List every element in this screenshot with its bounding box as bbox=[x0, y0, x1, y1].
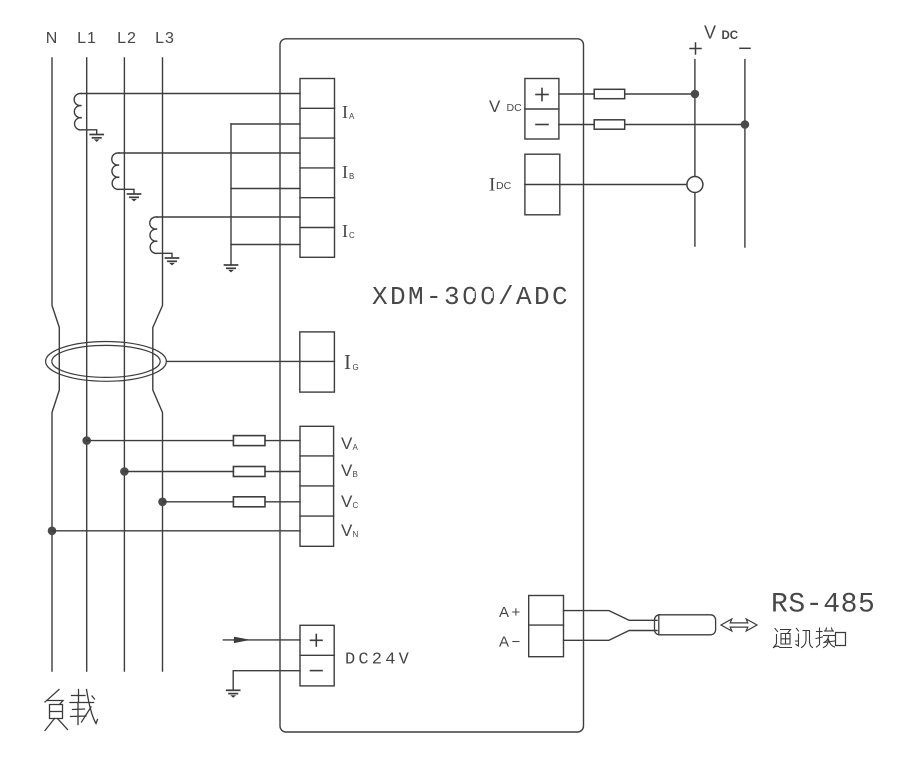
svg-text:I: I bbox=[489, 175, 495, 196]
terminal block IDC input bbox=[525, 154, 560, 215]
label VA bbox=[341, 434, 359, 453]
wire DC24V minus to ground bbox=[233, 671, 300, 690]
meter enclosure XDM-300/ADC bbox=[280, 39, 584, 732]
label IG bbox=[344, 350, 359, 374]
resistor VB bbox=[233, 467, 265, 477]
wire ring to IG terminal bbox=[166, 360, 334, 362]
resistor VDC plus bbox=[594, 89, 625, 98]
label XDM-300/ADC bbox=[372, 282, 570, 312]
terminal block DC24V supply bbox=[300, 625, 334, 686]
svg-text:I: I bbox=[342, 102, 348, 122]
label minus above return line bbox=[740, 47, 750, 49]
double arrow to RS-485 bbox=[721, 619, 757, 631]
ground CT1 bbox=[90, 135, 103, 142]
wire DC24V plus input bbox=[223, 639, 300, 641]
label VDC left bbox=[489, 97, 522, 116]
terminal block IG bbox=[300, 332, 335, 392]
resistor VDC minus bbox=[594, 120, 625, 129]
resistor VA bbox=[233, 436, 265, 446]
label VC bbox=[341, 492, 359, 511]
wire IDC to clamp sensor bbox=[525, 184, 687, 186]
svg-text:V: V bbox=[341, 492, 353, 511]
label VN bbox=[341, 521, 359, 540]
svg-text:C: C bbox=[349, 231, 355, 240]
label IB bbox=[342, 162, 354, 182]
svg-text:DC: DC bbox=[722, 30, 739, 42]
svg-text:I: I bbox=[344, 350, 351, 374]
wire return stub to terminal square 4 bbox=[231, 188, 300, 190]
label plus in VDC block bbox=[536, 89, 548, 101]
wire L3 feeder bbox=[153, 58, 163, 671]
wire CT3 secondary top to terminal IC bbox=[157, 216, 300, 218]
svg-text:A: A bbox=[349, 112, 355, 121]
wire CT3 secondary bottom to ground bbox=[158, 253, 173, 257]
ground common CT return bbox=[225, 265, 238, 272]
ground DC24V bbox=[227, 690, 240, 697]
current transformer CT1 on L1 bbox=[74, 93, 82, 130]
wire VDC minus return vertical bbox=[744, 60, 746, 247]
label 负载 (load) drawn glyph 载 bbox=[70, 690, 98, 725]
svg-text:G: G bbox=[353, 363, 359, 372]
terminal block voltage inputs VA VB VC VN bbox=[300, 426, 334, 546]
svg-text:V: V bbox=[341, 461, 353, 480]
svg-text:A+: A+ bbox=[499, 604, 523, 621]
wire CT1 secondary bottom to ground bbox=[82, 130, 97, 134]
svg-text:B: B bbox=[353, 470, 358, 479]
svg-text:DC24V: DC24V bbox=[345, 651, 412, 670]
current transformer CT3 on L3 bbox=[150, 217, 158, 254]
wire VDC plus supply vertical bbox=[694, 60, 696, 246]
wire A+ to communication plug bbox=[564, 611, 658, 621]
label plus in DC24V block bbox=[311, 635, 323, 647]
zero sequence CT ring inner bbox=[52, 345, 160, 377]
label 通讯接口 drawn glyph 讯 bbox=[796, 629, 813, 648]
zero sequence CT ring outer bbox=[46, 342, 167, 382]
svg-text:DC: DC bbox=[496, 180, 512, 192]
svg-text:DC: DC bbox=[507, 102, 523, 114]
label minus in DC24V block bbox=[311, 670, 323, 672]
ground CT2 bbox=[128, 194, 141, 201]
wire common CT return line bbox=[230, 124, 232, 265]
svg-text:L1: L1 bbox=[77, 30, 97, 47]
label 通讯接口 drawn glyph 接 bbox=[816, 628, 835, 648]
communication plug body bbox=[655, 615, 716, 635]
junction dot VDC minus bbox=[741, 120, 750, 129]
wire N feeder bbox=[52, 58, 59, 671]
ground CT3 bbox=[166, 258, 179, 265]
wire return stub to terminal square 2 bbox=[231, 123, 300, 125]
terminal block RS485 A+ A- bbox=[529, 596, 564, 657]
svg-text:N: N bbox=[353, 530, 359, 539]
svg-text:I: I bbox=[342, 221, 348, 241]
svg-text:C: C bbox=[353, 501, 359, 510]
svg-text:V: V bbox=[704, 23, 716, 43]
junction dot VB tap on L2 bbox=[120, 467, 129, 476]
junction dot VA tap on L1 bbox=[82, 436, 91, 445]
wire VB tap to resistor bbox=[124, 471, 300, 473]
svg-text:L3: L3 bbox=[155, 30, 175, 47]
svg-text:V: V bbox=[341, 521, 353, 540]
svg-text:RS-485: RS-485 bbox=[771, 590, 875, 621]
svg-text:V: V bbox=[489, 97, 501, 116]
terminal block VDC aux supply bbox=[525, 79, 559, 140]
wire L2 feeder bbox=[123, 58, 125, 671]
wire VA tap to resistor bbox=[87, 440, 300, 442]
wire VN tap to terminal bbox=[52, 530, 300, 532]
svg-text:I: I bbox=[342, 162, 348, 182]
label 通讯接口 drawn glyph 口 bbox=[836, 633, 846, 646]
label minus in VDC block bbox=[536, 124, 548, 126]
wire VDC plus to terminal bbox=[559, 93, 695, 95]
label VB bbox=[341, 461, 358, 480]
svg-text:L2: L2 bbox=[117, 30, 137, 47]
svg-text:B: B bbox=[349, 172, 354, 181]
junction dot VDC plus bbox=[691, 90, 700, 99]
label plus above supply line bbox=[690, 43, 701, 54]
wire VDC minus to terminal bbox=[559, 124, 745, 126]
label VDC top bbox=[704, 23, 738, 43]
label IDC left bbox=[489, 175, 512, 196]
current transformer CT2 on L2 bbox=[112, 153, 120, 190]
wire L1 feeder bbox=[86, 58, 88, 671]
communication plug ferrule line bbox=[658, 615, 660, 635]
svg-text:A−: A− bbox=[499, 634, 523, 651]
wire CT1 secondary top to terminal IA bbox=[81, 93, 300, 95]
svg-text:V: V bbox=[341, 434, 353, 453]
junction dot VC tap on L3 bbox=[158, 498, 167, 507]
label 负载 (load) drawn glyph 负 bbox=[45, 690, 68, 731]
wire CT2 secondary bottom to ground bbox=[120, 189, 135, 193]
svg-text:A: A bbox=[353, 443, 359, 452]
wire A- to communication plug bbox=[564, 631, 658, 641]
junction dot VN tap on N bbox=[48, 527, 57, 536]
wire return stub to terminal square 6 bbox=[231, 244, 300, 246]
wire CT2 secondary top to terminal IB bbox=[119, 152, 300, 154]
wire VC tap to resistor bbox=[163, 501, 301, 503]
arrowhead on DC24V plus wire bbox=[234, 637, 248, 642]
terminal block current inputs IA IB IC bbox=[300, 79, 335, 258]
clamp sensor circle on IDC wire bbox=[687, 177, 703, 193]
label IC bbox=[342, 221, 355, 241]
label IA bbox=[342, 102, 355, 122]
label 通讯接口 drawn glyph 通 bbox=[774, 629, 792, 648]
resistor VC bbox=[233, 497, 265, 507]
svg-text:N: N bbox=[46, 30, 59, 47]
